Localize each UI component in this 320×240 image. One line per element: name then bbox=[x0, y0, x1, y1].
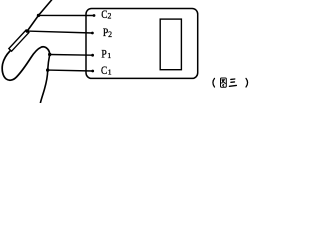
caption: 三 character bbox=[229, 79, 236, 86]
wire C1 bbox=[48, 69, 93, 72]
wire: segment between P1 and C1 junctions bbox=[48, 55, 50, 71]
probe P (rotated rectangle body) bbox=[9, 30, 29, 51]
caption: ） right fullwidth paren bbox=[246, 78, 248, 87]
wire P1 bbox=[50, 54, 93, 57]
wire P2 bbox=[27, 31, 92, 33]
svg-text:2: 2 bbox=[108, 30, 112, 39]
display window rectangle bbox=[160, 19, 181, 70]
junction dot at P1 tap bbox=[48, 53, 51, 56]
svg-text:1: 1 bbox=[108, 67, 112, 76]
terminal dot P1 bbox=[91, 54, 94, 57]
junction dot at C1 tap bbox=[46, 68, 49, 71]
junction dot on diagonal (P2 tap) bbox=[26, 29, 29, 32]
label C2 bbox=[101, 8, 112, 77]
terminal dot C2 bbox=[93, 14, 96, 17]
svg-text:C: C bbox=[101, 64, 107, 77]
instrument box (earth resistance tester) bbox=[86, 9, 198, 79]
wire: hook lead from probe tip through loop up to P1 junction bbox=[2, 47, 50, 80]
wire C2 bbox=[39, 14, 95, 16]
caption: 图 character bbox=[221, 78, 227, 87]
caption: （ left fullwidth paren bbox=[213, 78, 215, 87]
wire: lead going to bottom edge bbox=[40, 70, 47, 103]
wire: upper diagonal lead bbox=[27, 0, 51, 31]
svg-text:2: 2 bbox=[108, 12, 112, 21]
svg-text:1: 1 bbox=[107, 51, 111, 60]
terminal dot P2 bbox=[91, 32, 94, 35]
terminal dot C1 bbox=[91, 70, 94, 73]
svg-text:P: P bbox=[101, 48, 106, 61]
junction dot on diagonal (C2 tap) bbox=[37, 14, 40, 17]
